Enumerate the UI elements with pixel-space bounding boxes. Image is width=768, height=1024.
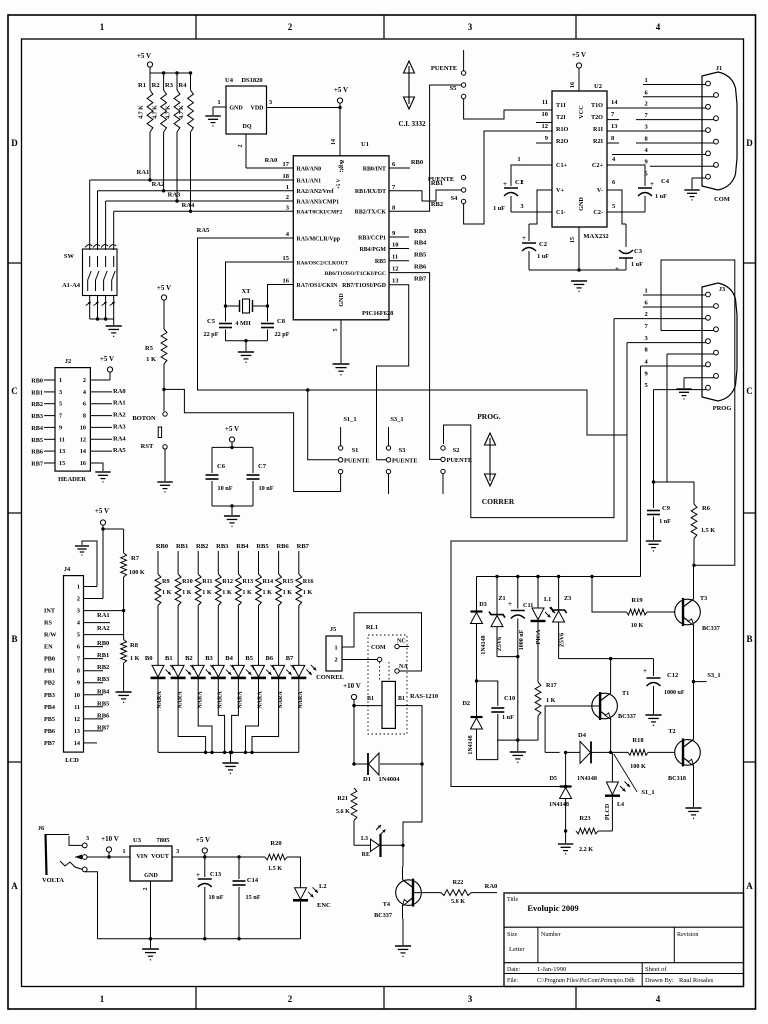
svg-text:C5: C5	[207, 318, 216, 325]
svg-text:R23: R23	[579, 815, 591, 822]
svg-text:GND: GND	[229, 106, 243, 112]
pin 8 J1	[636, 142, 714, 144]
wire T4 collector	[402, 845, 404, 866]
pin 4 J1	[612, 154, 706, 156]
ground at J3	[676, 388, 691, 390]
svg-text:4.7 K: 4.7 K	[152, 105, 158, 119]
svg-text:BOTON: BOTON	[132, 415, 156, 422]
svg-text:1.5 K: 1.5 K	[701, 527, 715, 534]
svg-text:Date:: Date:	[507, 967, 520, 973]
wire T1 emitter	[610, 732, 612, 752]
svg-text:11: 11	[542, 99, 548, 106]
svg-text:RA2/AN2/Vref: RA2/AN2/Vref	[297, 189, 335, 195]
wire R9 to LED B0	[157, 606, 159, 666]
wire C2/C3 ground rail	[529, 269, 626, 271]
svg-text:INT: INT	[44, 608, 56, 615]
svg-text:DQ: DQ	[243, 124, 252, 130]
svg-text:C: C	[11, 386, 18, 396]
svg-text:RB2: RB2	[31, 401, 43, 408]
svg-text:2: 2	[645, 311, 648, 318]
svg-text:VIN: VIN	[136, 853, 148, 860]
resistor R15 1 K	[276, 574, 282, 606]
svg-text:A: A	[746, 881, 753, 891]
wire T3 collector to R6	[693, 565, 695, 586]
svg-text:4: 4	[77, 620, 80, 627]
capacitor C13 10 uF	[204, 857, 206, 877]
pin 1 J3	[643, 294, 706, 296]
wire T1 collector to C12 node	[610, 659, 612, 680]
wire J3 pin2 to S2 route	[444, 319, 615, 518]
wire R20 to L2	[287, 857, 301, 888]
wire J2 pin to RA2	[90, 415, 112, 417]
svg-text:3: 3	[468, 994, 473, 1004]
svg-text:2: 2	[645, 101, 648, 108]
svg-text:Z5V6: Z5V6	[560, 633, 566, 647]
svg-text:16: 16	[570, 82, 576, 88]
svg-text:13: 13	[74, 728, 80, 735]
svg-text:R17: R17	[546, 682, 557, 689]
wire LED common bus	[158, 751, 299, 753]
jumper S2 PUENTE	[441, 446, 445, 450]
wire J2 pin16 to ground	[90, 463, 103, 471]
wire RB7 to R16	[298, 551, 300, 574]
wire SW outputs to ground bus	[89, 296, 91, 320]
svg-text:RB7: RB7	[297, 543, 310, 550]
transistor T3 BC337	[675, 599, 701, 625]
svg-text:RS: RS	[44, 620, 52, 627]
svg-text:+5 V: +5 V	[95, 507, 109, 515]
svg-text:COM: COM	[371, 645, 386, 651]
svg-text:12: 12	[74, 716, 80, 723]
svg-text:13: 13	[611, 123, 618, 130]
switch SW A1-A4 (4x DIP)	[83, 249, 118, 296]
pin 10 U2 stub	[536, 122, 552, 124]
wire RA3 net (R3 to PIC pin 2)	[176, 132, 178, 201]
wire LED B7 cathode to bus	[298, 678, 300, 752]
svg-text:T2I: T2I	[556, 114, 566, 121]
svg-text:1 K: 1 K	[146, 356, 156, 363]
wire J4 pin7 RB1	[84, 658, 104, 660]
svg-text:15: 15	[283, 255, 290, 262]
svg-text:1000 uF: 1000 uF	[519, 629, 525, 650]
svg-text:16: 16	[283, 278, 290, 285]
svg-text:L4: L4	[617, 802, 624, 808]
svg-text:1N4148: 1N4148	[481, 635, 487, 654]
svg-text:1 K: 1 K	[242, 589, 252, 596]
svg-text:RB5: RB5	[97, 700, 110, 707]
wire PIC RB7/PGD to S3	[377, 285, 409, 460]
svg-text:Z5V6: Z5V6	[497, 637, 503, 651]
svg-text:R2: R2	[152, 82, 160, 89]
svg-text:Z1: Z1	[498, 595, 505, 602]
svg-text:B: B	[11, 634, 17, 644]
svg-text:10 nF: 10 nF	[259, 485, 274, 492]
ground at SW	[106, 325, 122, 327]
svg-text:R5: R5	[145, 345, 154, 352]
svg-text:B1: B1	[165, 655, 173, 662]
svg-text:C9: C9	[662, 505, 671, 512]
wire J2 pin to RA1	[90, 403, 112, 405]
wire L2 to ground bus	[300, 900, 302, 938]
svg-text:GND: GND	[578, 197, 585, 211]
wire J4 pin11 RB5	[84, 706, 104, 708]
capacitor C7 10 nF	[252, 447, 254, 473]
wire RST to ground	[164, 449, 166, 481]
capacitor C5 22 pF	[225, 306, 227, 322]
svg-text:RB6/T1OSO/T1CKI/PGC: RB6/T1OSO/T1CKI/PGC	[325, 271, 386, 277]
svg-text:RB2/TX/CK: RB2/TX/CK	[355, 210, 387, 216]
wire R17 to rail	[537, 716, 539, 740]
wire T3 emitter down to T2 collector	[693, 638, 695, 729]
capacitor C4 1 uF	[607, 165, 645, 186]
pin 9 U2 stub	[536, 142, 552, 144]
diode D1 1N4004	[354, 763, 368, 765]
svg-text:Z3: Z3	[564, 595, 571, 602]
svg-text:3: 3	[77, 608, 80, 615]
svg-text:S1_1: S1_1	[641, 789, 654, 796]
connector J5 CONREL	[326, 636, 342, 671]
svg-text:C14: C14	[247, 877, 259, 884]
wire 7805 output row	[172, 856, 265, 858]
net label S1_1 callout	[614, 754, 637, 792]
wire D5 to ground	[565, 799, 567, 844]
svg-text:C2: C2	[539, 241, 547, 248]
svg-text:+5 V: +5 V	[100, 355, 114, 363]
svg-text:R15: R15	[283, 578, 294, 585]
pin 6 J3	[643, 306, 714, 308]
wire R10 to LED B1	[177, 606, 179, 666]
resistor R17 1 K	[535, 682, 541, 716]
svg-text:C8: C8	[277, 318, 286, 325]
svg-text:+: +	[522, 234, 526, 242]
wire PIC RB0 stub	[389, 167, 410, 169]
wire J6 sleeve to ground bus	[85, 872, 98, 939]
svg-text:RA1: RA1	[137, 169, 150, 176]
wire T2 base row	[545, 751, 560, 753]
svg-text:RB1: RB1	[31, 389, 43, 396]
svg-text:1: 1	[122, 848, 125, 855]
svg-text:7805: 7805	[157, 837, 171, 844]
wire LCD pin1 to ground	[82, 541, 97, 587]
svg-text:1 K: 1 K	[222, 589, 232, 596]
diode D3 1N4148	[476, 577, 478, 612]
resistor R11 1 K	[195, 574, 201, 606]
svg-text:1 uF: 1 uF	[537, 253, 549, 260]
svg-text:13: 13	[392, 278, 399, 285]
LED L1 PICA	[537, 577, 539, 609]
svg-text:RA0: RA0	[485, 883, 498, 890]
connector J6 VOLTA jack	[46, 834, 47, 875]
svg-text:1: 1	[334, 645, 337, 652]
svg-text:LCD: LCD	[65, 757, 79, 764]
svg-text:PB7: PB7	[44, 740, 55, 747]
wire C10/C11/R17 ground rail	[497, 739, 538, 741]
resistor R13 1 K	[236, 574, 242, 606]
wire J3 pin5 to C9 node	[653, 390, 655, 482]
wire S4 middle to PIC RB1 (jog)	[389, 190, 461, 201]
wire J3 pin9 to ground	[683, 378, 685, 388]
svg-text:11: 11	[74, 704, 80, 711]
wire L1 to R17	[537, 621, 539, 682]
wire U4 GND pin	[213, 106, 226, 108]
svg-text:PB2: PB2	[44, 680, 55, 687]
wire PIC GND pin to ground	[340, 320, 342, 363]
svg-text:RE: RE	[362, 852, 370, 858]
resistor R21 5.6 K	[351, 788, 357, 821]
svg-text:100 K: 100 K	[129, 569, 145, 576]
svg-text:RA2: RA2	[113, 412, 126, 419]
svg-text:RB0: RB0	[411, 159, 423, 166]
wire +5V to PIC VDD	[339, 103, 341, 156]
connector J4 LCD	[64, 576, 84, 753]
svg-text:J2: J2	[65, 358, 72, 365]
wire V+ pin2 to C2	[529, 190, 552, 224]
wire J4 pin14 stub	[84, 742, 98, 744]
svg-text:RA6/OSC2/CLKOUT: RA6/OSC2/CLKOUT	[297, 260, 349, 266]
wire LED B5 cathode to bus	[246, 678, 259, 752]
svg-text:L1: L1	[544, 596, 551, 603]
svg-text:S3: S3	[399, 447, 407, 454]
svg-text:RB2: RB2	[196, 543, 208, 550]
svg-text:BC337: BC337	[618, 713, 636, 720]
svg-text:HEADER: HEADER	[58, 476, 86, 483]
svg-text:COM: COM	[714, 196, 730, 203]
svg-text:Sheet of: Sheet of	[645, 966, 667, 973]
svg-text:B1: B1	[367, 696, 374, 702]
pin 5 J3	[654, 389, 707, 391]
svg-text:CONREL: CONREL	[316, 674, 344, 681]
wire R16 to LED B7	[298, 606, 300, 666]
wire J2 pin to RA0	[90, 391, 112, 393]
svg-text:11: 11	[59, 436, 65, 443]
wire PIC RB6/PGC to S2	[389, 273, 441, 460]
svg-text:R11: R11	[202, 578, 212, 585]
wire R19 to T3 base	[647, 611, 675, 613]
svg-text:Drawn By:: Drawn By:	[645, 977, 674, 984]
svg-text:RA0: RA0	[265, 157, 278, 164]
svg-text:D: D	[11, 138, 18, 148]
svg-text:+5 V: +5 V	[137, 52, 151, 60]
svg-text:R19: R19	[631, 597, 643, 604]
svg-text:T2: T2	[668, 728, 675, 735]
resistor R6 1.5 K	[654, 482, 695, 504]
pin 8 J3	[667, 353, 714, 355]
svg-text:RST: RST	[141, 443, 154, 450]
ground at R8	[116, 691, 132, 693]
wire J3 pin7 programming loop	[661, 260, 735, 565]
svg-text:4 MH: 4 MH	[235, 320, 250, 327]
svg-text:R3: R3	[165, 82, 174, 89]
ground at T2	[685, 807, 701, 809]
IC U2 MAX232	[552, 91, 607, 227]
svg-text:10 uF: 10 uF	[209, 894, 224, 901]
svg-text:12: 12	[542, 123, 549, 130]
svg-text:5: 5	[77, 632, 80, 639]
svg-text:R12: R12	[222, 578, 233, 585]
wire J6 tip to 7805 VIN	[87, 856, 130, 858]
resistor R16 1 K	[296, 574, 302, 606]
svg-text:5.6 K: 5.6 K	[451, 898, 465, 905]
svg-text:B3: B3	[205, 655, 213, 662]
wire J2 pin to RA3	[90, 426, 112, 428]
svg-text:1 nF: 1 nF	[659, 518, 671, 525]
svg-text:1 K: 1 K	[182, 589, 192, 596]
svg-text:RB1/RX/DT: RB1/RX/DT	[355, 189, 386, 195]
svg-text:RA3: RA3	[113, 423, 126, 430]
svg-text:+5 V: +5 V	[336, 178, 342, 189]
capacitor C2 1 uF	[528, 224, 530, 241]
diode D2 1N4148	[476, 681, 478, 717]
svg-text:C4: C4	[661, 178, 670, 185]
wire R13 to LED B4	[237, 606, 239, 666]
svg-text:R/W: R/W	[44, 632, 57, 639]
svg-text:+: +	[503, 180, 507, 188]
svg-text:R7: R7	[131, 555, 140, 562]
svg-text:9: 9	[77, 680, 80, 687]
capacitor C8 22 pF	[267, 306, 269, 322]
svg-text:File:: File:	[507, 978, 518, 984]
svg-text:10: 10	[392, 242, 399, 249]
svg-text:T2O: T2O	[591, 114, 603, 121]
svg-text:RB6: RB6	[31, 449, 43, 456]
svg-text:13: 13	[59, 448, 65, 455]
ground at C11 rail	[510, 751, 526, 753]
svg-text:2: 2	[334, 657, 337, 664]
svg-text:1: 1	[645, 288, 648, 295]
svg-text:2: 2	[288, 994, 293, 1004]
wire R15 to LED B6	[278, 606, 280, 666]
svg-text:1 uF: 1 uF	[655, 193, 667, 200]
pin 2 J3	[614, 318, 706, 320]
wire ground bus	[98, 938, 301, 940]
ground at C12	[645, 714, 661, 716]
svg-text:RA5: RA5	[197, 227, 210, 234]
wire relay right branch to T4 node	[403, 764, 422, 845]
wire LED B1 cathode to bus	[178, 678, 206, 752]
svg-text:RA1: RA1	[97, 612, 110, 619]
svg-text:C12: C12	[667, 672, 678, 679]
svg-text:10: 10	[80, 424, 86, 431]
svg-text:R8: R8	[130, 642, 139, 649]
svg-text:RB3: RB3	[414, 228, 427, 235]
svg-text:A: A	[11, 881, 18, 891]
svg-text:U1: U1	[361, 141, 369, 148]
svg-text:4: 4	[83, 389, 86, 396]
wire L4 top to D4/R18 node	[611, 752, 613, 782]
svg-text:RB1: RB1	[176, 543, 188, 550]
svg-text:U4: U4	[225, 77, 234, 84]
svg-text:15: 15	[59, 460, 65, 467]
svg-text:L2: L2	[319, 883, 327, 890]
resistor R7 100 K	[123, 529, 125, 553]
svg-text:RB3: RB3	[216, 543, 229, 550]
wire J2 pin to RA5	[90, 450, 112, 452]
svg-text:RB7: RB7	[97, 724, 110, 731]
resistor R20 1.5 K	[265, 854, 287, 860]
svg-text:12: 12	[392, 266, 399, 273]
ground at C9	[646, 540, 661, 542]
svg-text:RB4: RB4	[97, 688, 110, 695]
wire S5 middle to PIC RB2	[389, 85, 461, 211]
svg-text:1: 1	[100, 22, 105, 32]
svg-text:Letter: Letter	[509, 946, 525, 953]
wire J3 pin3 to D5 route	[451, 343, 627, 787]
relay coil B1	[382, 681, 395, 728]
ground at LCD pin1	[75, 545, 89, 547]
wire crystal caps common	[226, 340, 268, 342]
wire harness RA3 row	[106, 200, 294, 202]
svg-text:2: 2	[83, 377, 86, 384]
svg-text:PUENTE: PUENTE	[344, 457, 370, 464]
svg-text:7: 7	[77, 656, 80, 663]
svg-text:D5: D5	[549, 775, 557, 782]
svg-text:RB1: RB1	[431, 180, 443, 187]
svg-text:R9: R9	[162, 578, 170, 585]
resistor R1 4.7 K	[149, 73, 151, 90]
svg-text:GND: GND	[144, 872, 158, 879]
ground at C6/C7	[224, 515, 240, 517]
wire J4 pin1 stub	[84, 586, 98, 588]
svg-text:RB2: RB2	[431, 201, 443, 208]
svg-text:D1: D1	[363, 776, 371, 783]
svg-text:RB4: RB4	[236, 543, 249, 550]
wire T4 base to R22	[413, 892, 441, 894]
resistor R23 2.2 K	[576, 828, 598, 834]
wire J5 pin1 to relay NA	[342, 613, 422, 671]
svg-text:RL1: RL1	[366, 624, 378, 631]
wire C6/C7 bottom rail	[212, 505, 253, 507]
svg-text:18: 18	[283, 173, 290, 180]
wire J4 pin3 to R7/R8 node	[84, 610, 124, 612]
svg-text:10 nF: 10 nF	[218, 485, 233, 492]
svg-text:PUENTE: PUENTE	[447, 457, 473, 464]
svg-text:RA3: RA3	[168, 192, 181, 199]
svg-text:VCC: VCC	[578, 105, 585, 118]
wire V- pin6 to C3	[607, 190, 626, 224]
wire R21 to L3	[353, 821, 355, 846]
svg-text:2: 2	[520, 179, 523, 186]
svg-text:1 uF: 1 uF	[493, 205, 505, 212]
connector J1 DB9 COM	[702, 72, 737, 190]
svg-text:C10: C10	[504, 695, 515, 702]
svg-text:1 uF: 1 uF	[631, 261, 643, 268]
svg-text:PB5: PB5	[44, 716, 55, 723]
svg-text:RB6: RB6	[276, 543, 289, 550]
resistor R2 4.7 K	[163, 73, 165, 90]
wire C4 bottom to C2- pin5	[607, 211, 645, 213]
svg-text:Number: Number	[541, 932, 561, 938]
wire PIC RB4 stub	[389, 248, 409, 250]
wire J4 pin10 RB4	[84, 694, 104, 696]
connector J3 DB9 PROG	[702, 283, 737, 401]
svg-text:L3: L3	[361, 836, 368, 842]
wire T4 emitter to ground	[402, 919, 404, 945]
svg-text:U2: U2	[594, 83, 602, 90]
IC U1 PIC16F628 microcontroller	[293, 156, 389, 320]
svg-text:+5 V: +5 V	[225, 425, 239, 433]
svg-text:2: 2	[238, 145, 244, 148]
ground at LED bus	[222, 762, 238, 764]
svg-text:RB5: RB5	[414, 252, 427, 259]
pin 3 J1	[607, 130, 706, 132]
svg-text:C6: C6	[217, 463, 226, 470]
wire RA4 net (R4 to PIC pin 3)	[190, 132, 192, 211]
svg-text:EN: EN	[44, 644, 53, 651]
zener Z1 Z5V6	[496, 577, 498, 615]
wire J4 pin9 RB3	[84, 682, 104, 684]
svg-text:4: 4	[656, 22, 661, 32]
svg-text:R14: R14	[263, 578, 274, 585]
